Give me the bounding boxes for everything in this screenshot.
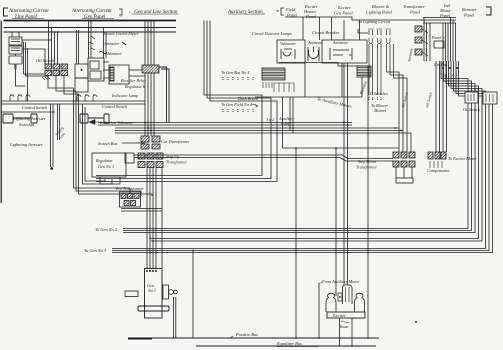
relay coil hatch bbox=[110, 67, 114, 81]
svg-text:Line Panel: Line Panel bbox=[14, 15, 37, 20]
voltmeter squiggle bbox=[99, 52, 107, 54]
svg-text:Field: Field bbox=[285, 7, 296, 12]
svg-text:Oil Switch: Oil Switch bbox=[463, 107, 480, 112]
label Remoter Panel bbox=[461, 7, 477, 18]
pot secondary double line bbox=[121, 209, 162, 212]
ammeter 1 symbol bbox=[308, 47, 319, 61]
descending pair to regulator bbox=[83, 104, 113, 184]
left edge wire bbox=[0, 21, 2, 204]
junction dot gen drop b bbox=[152, 240, 154, 242]
wire aux to lighting bbox=[358, 29, 368, 33]
svg-text:Voltmeter: Voltmeter bbox=[280, 41, 296, 46]
step down bottom wires bbox=[396, 167, 412, 178]
instrument inner box 2 bbox=[90, 71, 101, 79]
label Rheostat rotated bbox=[358, 80, 368, 97]
svg-text:Ammeter: Ammeter bbox=[332, 40, 348, 45]
label Control Switch 2 bbox=[102, 104, 127, 109]
positive bus bbox=[128, 337, 379, 339]
wire drops to meters bbox=[303, 17, 360, 40]
bus line 2 bbox=[4, 27, 177, 29]
pot transformer outline bbox=[120, 192, 141, 207]
junction dot gen drop a bbox=[149, 238, 151, 240]
current transformer boxes bbox=[141, 136, 149, 142]
bus line 1 bbox=[4, 20, 177, 22]
bracket of Field Panel bbox=[276, 8, 284, 15]
label Gen and Line Section bbox=[128, 10, 178, 15]
lightning arrester dot bbox=[50, 167, 53, 170]
svg-text:Switch Bus: Switch Bus bbox=[98, 141, 118, 146]
lighting fuse loops row bbox=[369, 38, 390, 43]
label Circuit Breaker bbox=[312, 30, 340, 35]
label underline auxiliary section bbox=[228, 13, 265, 15]
svg-text:Exciter: Exciter bbox=[337, 5, 351, 10]
svg-text:To Exciter Motor: To Exciter Motor bbox=[448, 156, 477, 161]
svg-text:Compensator: Compensator bbox=[427, 168, 450, 173]
label Power Factor Meter bbox=[103, 31, 139, 36]
positive bus arrow bbox=[230, 336, 233, 338]
bracket right of Remoter Panel bbox=[486, 7, 491, 15]
exciter side box bbox=[338, 293, 342, 301]
blower comb bbox=[369, 97, 381, 101]
pot transformer row 2 bbox=[124, 201, 129, 206]
label Dash Board bbox=[237, 96, 259, 101]
label Oil Switch right bbox=[463, 107, 480, 112]
double line voltmeter run bbox=[98, 123, 352, 126]
step down feed elbow right bbox=[407, 133, 411, 152]
label Regulator b bbox=[124, 84, 145, 89]
label To Gen No 2 bbox=[95, 227, 118, 232]
svg-text:Gen No 1: Gen No 1 bbox=[98, 164, 114, 169]
svg-text:Regulator b: Regulator b bbox=[124, 84, 145, 89]
fuse leads bbox=[422, 29, 428, 56]
label Voltmeter bbox=[106, 51, 122, 56]
lighting fuse hooks row bbox=[369, 30, 390, 35]
wire disconnect down elbow bbox=[16, 69, 26, 86]
junction dot gen no3 bbox=[192, 250, 194, 252]
label D Switches bbox=[369, 91, 388, 96]
svg-text:Dash Board: Dash Board bbox=[237, 96, 259, 101]
voltmeter meter symbol bbox=[281, 49, 295, 59]
label Alternating Current Gen Panel bbox=[71, 9, 123, 20]
label Setting Line bbox=[55, 126, 67, 140]
exciter cylinder inner lines bbox=[346, 287, 350, 302]
exciter machine pedestal left bbox=[326, 293, 336, 312]
svg-text:Control Switch: Control Switch bbox=[102, 104, 127, 109]
svg-text:Alternating Current: Alternating Current bbox=[8, 9, 49, 14]
label Auxiliary Section bbox=[227, 10, 263, 15]
junction dot positive bus bbox=[339, 337, 341, 339]
wire bus to fuse bbox=[12, 32, 19, 46]
relay feed pair bbox=[104, 28, 107, 59]
bus line 3 bbox=[4, 31, 177, 33]
svg-text:Indicator Lamp: Indicator Lamp bbox=[111, 93, 138, 98]
gen left shaft box bbox=[125, 291, 138, 297]
svg-text:Gen Panel: Gen Panel bbox=[84, 15, 106, 20]
label Trip Cut bbox=[440, 73, 457, 78]
wire gen panel drops bbox=[89, 21, 92, 59]
svg-text:Remoter: Remoter bbox=[461, 7, 477, 12]
label To Exciter Motor bbox=[448, 156, 477, 161]
from aux motor leader bbox=[319, 282, 322, 284]
second arrester pair bbox=[58, 104, 60, 140]
svg-text:Lightning Arrester: Lightning Arrester bbox=[9, 142, 43, 147]
svg-text:Panel: Panel bbox=[305, 14, 317, 19]
ammeter 1 bbox=[307, 40, 323, 45]
gen machine body bbox=[145, 269, 163, 319]
mid horizontal pair lower bbox=[134, 155, 393, 161]
oil switch box right 1 bbox=[465, 92, 478, 103]
svg-text:Circuit Breaker: Circuit Breaker bbox=[312, 30, 340, 35]
label Regulator Gen No 1 bbox=[95, 158, 114, 169]
label To Gen Field No 4 bbox=[221, 102, 252, 107]
wire fuse row to oil switch bbox=[22, 40, 52, 64]
svg-text:Regulator: Regulator bbox=[95, 158, 113, 163]
wire cluster to relay bbox=[103, 62, 109, 78]
wire aux section top bbox=[285, 17, 424, 20]
label Ammeter bbox=[103, 41, 119, 46]
label Shunt bbox=[339, 324, 349, 329]
junction dot aux b bbox=[335, 147, 337, 149]
junction dot trunk a bbox=[144, 122, 146, 124]
svg-text:Panel: Panel bbox=[409, 10, 421, 15]
long wire down mid bbox=[295, 148, 297, 339]
wire rheostat down bbox=[255, 77, 362, 97]
svg-text:Control Switch: Control Switch bbox=[22, 105, 47, 110]
pot transformer row 1 bbox=[121, 194, 126, 199]
fuse box top left 2 bbox=[9, 46, 22, 54]
heavy loop wire right of trunk bbox=[159, 67, 169, 123]
svg-text:Panel b: Panel b bbox=[431, 35, 444, 40]
label To Blower Motors bbox=[371, 103, 389, 113]
label Ind Motor Panel bbox=[439, 3, 451, 18]
panel small box bbox=[434, 41, 444, 48]
svg-text:To Gen Bus No 4: To Gen Bus No 4 bbox=[221, 70, 249, 75]
junction tick marks bbox=[42, 76, 50, 80]
label Voltmeter aux bbox=[280, 41, 296, 46]
svg-text:D Switches: D Switches bbox=[369, 91, 388, 96]
label Cur Transformer bbox=[161, 139, 190, 144]
disconnect switch left bbox=[9, 56, 22, 69]
svg-text:To Gen No 3: To Gen No 3 bbox=[84, 248, 107, 253]
field rheostat comb bbox=[263, 82, 272, 88]
label Induction Voltmeter bbox=[99, 120, 134, 125]
wires breaker down bbox=[305, 63, 342, 97]
panel to gen bus loop wires bbox=[123, 61, 468, 229]
svg-text:To Lighting Circuit: To Lighting Circuit bbox=[358, 19, 391, 24]
junction dot trunk d bbox=[153, 132, 155, 134]
ammeter fuses right bbox=[415, 26, 422, 32]
lamp bank resistor bbox=[262, 68, 285, 80]
control switch double line bbox=[1, 101, 145, 104]
label Blower and Lighting Panel bbox=[365, 4, 393, 15]
exciter commutator cylinder bbox=[343, 285, 353, 304]
svg-text:Rectifier Relay: Rectifier Relay bbox=[120, 78, 146, 83]
step down bottom box bbox=[396, 178, 413, 183]
label Step Up Transformer bbox=[166, 154, 187, 165]
gen pedestal lines bbox=[174, 251, 194, 339]
aux drop wires bbox=[283, 97, 400, 148]
wire to exciter left pedestal bbox=[335, 148, 337, 296]
svg-text:Switches: Switches bbox=[19, 122, 35, 127]
junction dot sdt b bbox=[400, 130, 402, 132]
svg-text:Panel: Panel bbox=[463, 13, 475, 18]
wire pair left column bbox=[22, 42, 47, 101]
label Indicator Lamp bbox=[111, 93, 138, 98]
label Equalizer Bus bbox=[276, 341, 302, 346]
svg-text:Step Down: Step Down bbox=[358, 159, 376, 164]
svg-text:To Gen Field No 4: To Gen Field No 4 bbox=[221, 102, 252, 107]
label Oil Switch rotated 2 bbox=[425, 92, 433, 109]
relay box bbox=[109, 65, 129, 84]
side component box 2 bbox=[75, 78, 88, 92]
lighting to sdt elbows bbox=[387, 72, 408, 152]
voltmeter box aux bbox=[277, 40, 305, 63]
svg-text:Shunt: Shunt bbox=[339, 324, 349, 329]
regulator box bbox=[92, 153, 126, 177]
trunk wires gen no1 bbox=[145, 21, 154, 137]
label Oil Switch bbox=[36, 58, 55, 63]
label underline gen and line section bbox=[132, 13, 178, 15]
label Alternating Current Line Panel bbox=[8, 9, 49, 20]
svg-text:Oil Switch: Oil Switch bbox=[36, 58, 55, 63]
label Exciter Gen Panel bbox=[334, 5, 353, 16]
label Rectifier Relay bbox=[120, 78, 146, 83]
svg-text:Positive Bus: Positive Bus bbox=[235, 332, 258, 337]
side column wires bbox=[77, 30, 79, 64]
stray ink dot bbox=[415, 321, 417, 323]
transformer panel top wires bbox=[423, 18, 456, 24]
label Transformer Panel bbox=[403, 4, 425, 15]
svg-text:Blower &: Blower & bbox=[372, 4, 390, 9]
svg-text:Cur Transformer: Cur Transformer bbox=[161, 139, 190, 144]
oil switch contact row 1 bbox=[45, 64, 52, 69]
step down transformer row 1 bbox=[393, 152, 399, 158]
svg-text:Ammeter: Ammeter bbox=[307, 40, 323, 45]
wire bus drops to oil switch bbox=[49, 21, 58, 65]
terminal comb dashes 1 bbox=[223, 77, 253, 80]
label Cat Bus bbox=[434, 62, 448, 67]
junction dot trunk b bbox=[147, 127, 149, 129]
junction dot sdt a bbox=[394, 127, 396, 129]
gen crossbar base bbox=[138, 306, 169, 311]
junction dot exciter a bbox=[343, 122, 345, 124]
control line lower stub bbox=[1, 111, 55, 113]
blower wires bbox=[369, 44, 394, 95]
terminal comb dashes 2 bbox=[223, 109, 253, 112]
label Switch Bus bbox=[98, 141, 118, 146]
svg-text:Pot Transformer: Pot Transformer bbox=[115, 186, 144, 191]
label Ammeter 2 bbox=[332, 40, 348, 45]
label Oil Switch rotated 1 bbox=[401, 92, 409, 109]
step up transformer row 1 bbox=[138, 153, 145, 159]
label Auxiliary Pump bbox=[266, 116, 294, 126]
label Circuit Detector Lamps bbox=[252, 31, 292, 36]
label Lightning Arrester 2 bbox=[9, 142, 43, 147]
descending wire bundle left panel bbox=[74, 88, 153, 196]
junction dot aux a bbox=[295, 147, 297, 149]
instrument inner box 1 bbox=[90, 61, 99, 69]
fuse box top left 1 bbox=[9, 37, 22, 45]
label Pot Transformer bbox=[115, 186, 144, 191]
step up side box bbox=[125, 153, 134, 163]
oil switch bundle 2 bbox=[436, 61, 447, 152]
label From Auxiliary Motor bbox=[321, 279, 360, 284]
lamp hooks bbox=[274, 83, 294, 92]
label underline gen panel bbox=[82, 18, 114, 20]
equalizer label underline bbox=[276, 346, 318, 348]
circuit breaker box bbox=[322, 40, 367, 63]
ammeter 2 symbol bbox=[330, 48, 352, 60]
label Exciter Heater Panel bbox=[303, 4, 318, 19]
single long wire right of exciter bbox=[279, 63, 368, 241]
exciter machine pedestal right bbox=[355, 293, 365, 312]
svg-text:Circuit Detector Lamps: Circuit Detector Lamps bbox=[252, 31, 292, 36]
wire fuse to switch bbox=[15, 54, 17, 56]
bracket left of Alternating Current Line Panel label bbox=[4, 8, 9, 16]
transformer panel verticals bbox=[424, 18, 456, 62]
gen bearing bbox=[163, 285, 169, 299]
equalizer bus bbox=[196, 345, 376, 347]
oil switch contact row 2 bbox=[45, 71, 52, 76]
svg-text:Equalizer Bus: Equalizer Bus bbox=[276, 341, 302, 346]
svg-text:No 1: No 1 bbox=[147, 288, 156, 293]
svg-text:To Gen No 2: To Gen No 2 bbox=[95, 227, 118, 232]
aux trunk elbows bbox=[96, 21, 262, 176]
oil switch box right 2 bbox=[483, 92, 497, 104]
exciter leg drops bbox=[340, 318, 353, 346]
switch bus line bbox=[122, 142, 145, 144]
rheostat small box bbox=[357, 66, 371, 77]
label Control Switch 1 bbox=[22, 105, 47, 110]
induction voltmeter arrow component bbox=[89, 120, 99, 125]
disconnect jaws on trunk bbox=[142, 65, 159, 73]
exciter motor transformer row bbox=[428, 152, 433, 159]
label To Gen Bus No 4 bbox=[221, 70, 249, 75]
gen drop wires bbox=[147, 168, 162, 269]
wires oil switch down elbows bbox=[48, 76, 79, 95]
label Field Panel bbox=[285, 7, 298, 18]
exciter feed pair bbox=[344, 63, 348, 285]
wire relay to trunk bbox=[129, 70, 145, 76]
shunt squiggle bbox=[341, 321, 349, 323]
ammeter pointer bbox=[122, 42, 126, 45]
svg-text:Motors: Motors bbox=[373, 108, 386, 113]
label underline line panel bbox=[12, 18, 44, 20]
gen panel bracket tick bbox=[119, 9, 122, 15]
step down transformer row 2 bbox=[393, 161, 399, 167]
control switch hooks 2 bbox=[77, 95, 97, 101]
junction dot exciter b bbox=[347, 124, 349, 126]
goalpost left wire bbox=[318, 283, 320, 339]
svg-text:Transformer: Transformer bbox=[166, 160, 187, 165]
label Positive Bus bbox=[235, 332, 258, 337]
label Step Down Transformer bbox=[356, 159, 377, 170]
svg-text:3 φ 2: 3 φ 2 bbox=[266, 117, 274, 122]
label Panel small bbox=[431, 35, 444, 40]
gen panel instrument cluster outer box bbox=[88, 58, 104, 81]
exciter motor comb bbox=[430, 161, 442, 168]
svg-text:Voltmeter: Voltmeter bbox=[106, 51, 122, 56]
mid horizontal bundle bbox=[115, 128, 407, 133]
label Ammeter rotated bbox=[407, 47, 414, 63]
svg-text:Lightning Arrester: Lightning Arrester bbox=[12, 116, 46, 121]
exciter goalpost wires bbox=[367, 240, 369, 339]
svg-text:Transformer: Transformer bbox=[356, 165, 377, 170]
control switch hooks 1 bbox=[10, 95, 30, 101]
svg-text:Ammeter: Ammeter bbox=[103, 41, 119, 46]
fuse marks bbox=[11, 39, 20, 51]
label To Gen No 3 bbox=[84, 248, 107, 253]
svg-text:Exciter: Exciter bbox=[332, 313, 346, 318]
exciter base plate bbox=[327, 312, 365, 318]
big I-beam 1 bbox=[3, 114, 37, 123]
svg-text:Transformer: Transformer bbox=[403, 4, 425, 9]
step up transformer row 2 bbox=[138, 162, 145, 168]
junction dots bus bbox=[51, 31, 53, 33]
svg-text:Lighting Panel: Lighting Panel bbox=[365, 10, 393, 15]
gen wire terminal dots bbox=[146, 270, 148, 272]
junction dot equalizer bbox=[351, 345, 353, 347]
to gen field arrow bbox=[252, 104, 258, 108]
label Lightning Arrester Switches bbox=[12, 116, 46, 127]
junction dots bbox=[442, 67, 444, 69]
wire meter leads bbox=[89, 36, 96, 50]
side component box 1 bbox=[75, 64, 88, 78]
label Gen No 1 bbox=[147, 283, 156, 293]
big I-beam 2 bbox=[80, 114, 109, 123]
lightning arrester wire pair bbox=[51, 104, 54, 167]
svg-text:From Auxiliary Motor: From Auxiliary Motor bbox=[321, 279, 360, 284]
regulator bottom wires bbox=[100, 177, 120, 184]
svg-text:Power Factor Meter: Power Factor Meter bbox=[103, 31, 139, 36]
label Compensator bbox=[427, 168, 450, 173]
junction dot trunk c bbox=[150, 130, 152, 132]
lighting circuit label bbox=[358, 19, 391, 24]
label To Auxiliary Motors bbox=[317, 96, 353, 109]
svg-text:Gen Panel: Gen Panel bbox=[334, 11, 353, 16]
positive bus heavy end bbox=[128, 338, 152, 340]
svg-text:Alternating Current: Alternating Current bbox=[71, 9, 112, 14]
label Exciter bbox=[332, 313, 346, 318]
